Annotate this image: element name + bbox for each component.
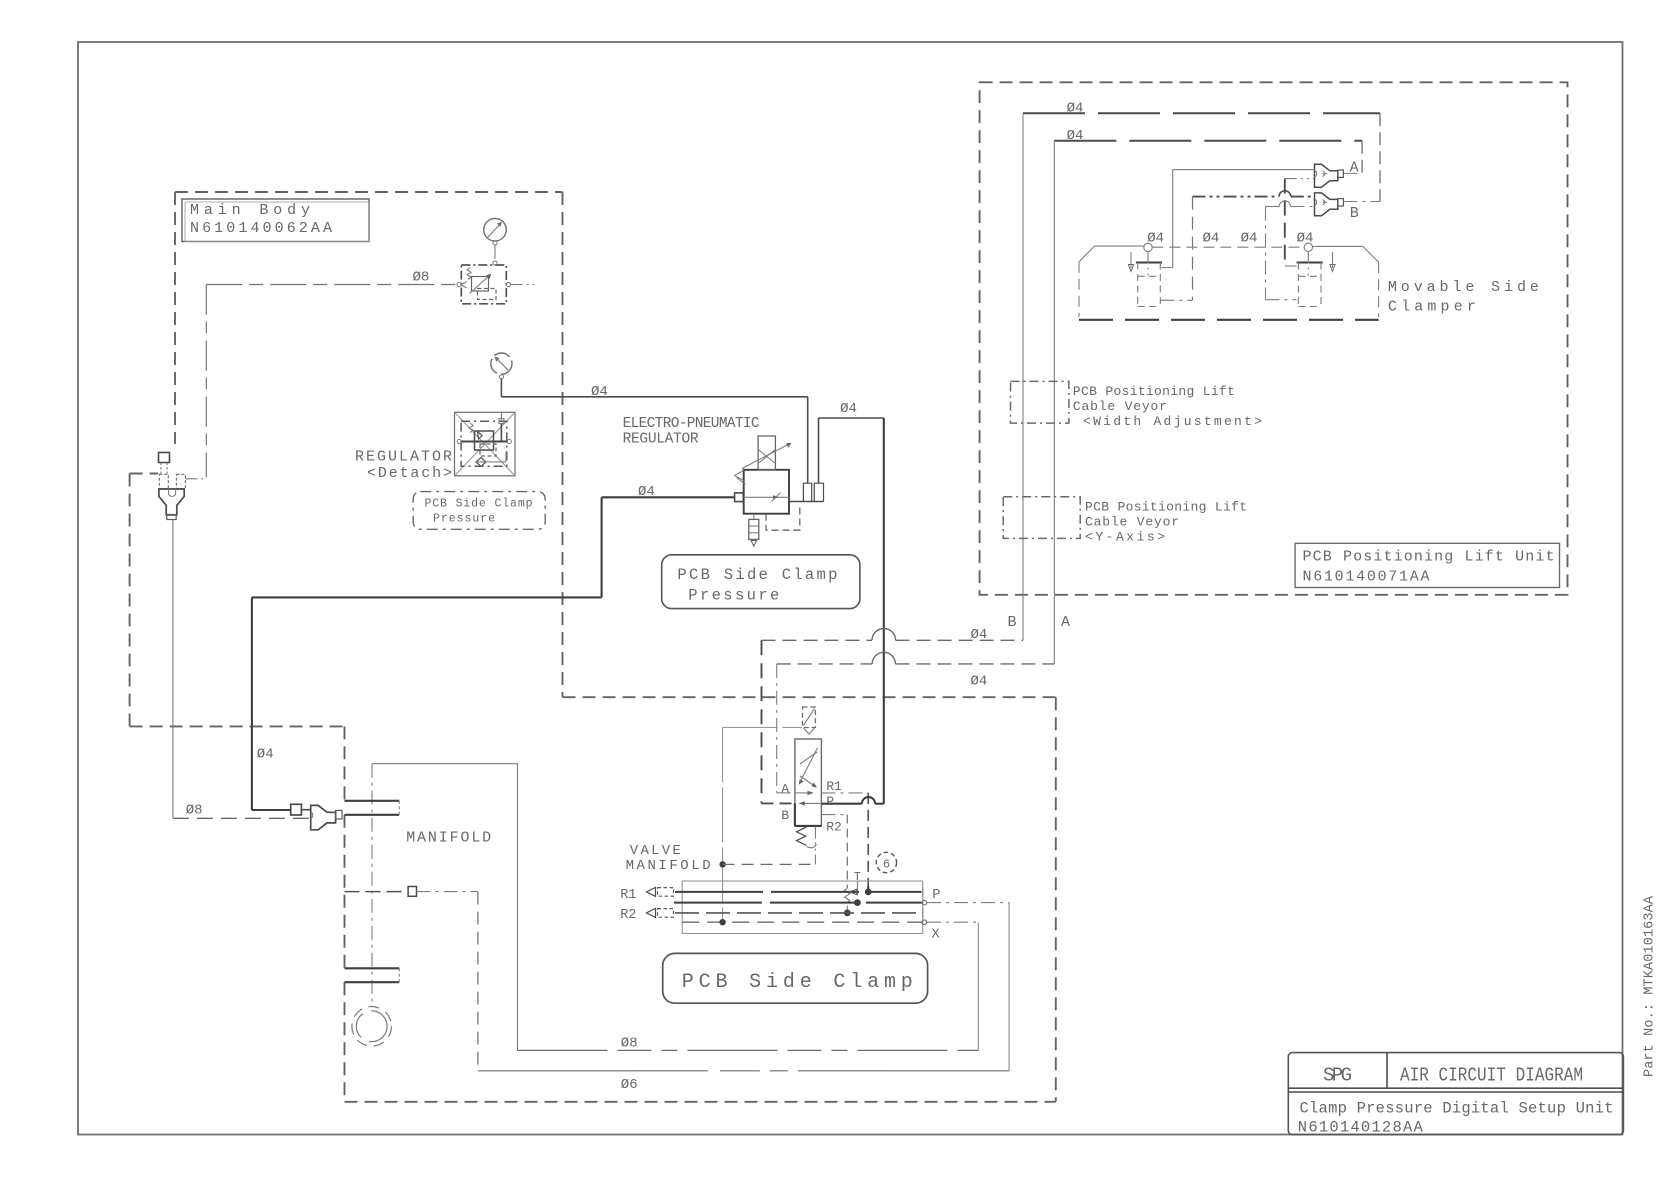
wire gauge G2 drop bbox=[500, 379, 502, 397]
svg-text:Ø4: Ø4 bbox=[840, 401, 857, 417]
svg-text:R1: R1 bbox=[620, 888, 636, 903]
valve V1 exhaust stub to leader bbox=[814, 827, 816, 865]
regulator R-A (main body air regulator) bbox=[457, 265, 510, 304]
Main Body enclosure lower section top edge bbox=[563, 696, 1056, 698]
Main Body enclosure lower section bottom edge bbox=[345, 1101, 1056, 1103]
svg-text:Ø4: Ø4 bbox=[638, 484, 655, 500]
manifold M1 bottom port sleeve bbox=[345, 968, 400, 982]
Movable Side Clamper chamfers bbox=[1079, 246, 1379, 262]
svg-text:PCB Positioning Lift Unit: PCB Positioning Lift Unit bbox=[1303, 549, 1555, 566]
fitting R2 port bbox=[647, 908, 656, 917]
wire manifold line 2 (P supply) bbox=[674, 902, 922, 904]
wire X port continuation dash-dot bbox=[927, 921, 978, 923]
svg-text:Ø8: Ø8 bbox=[186, 803, 203, 819]
wire P-port riser x=1009 bbox=[1008, 903, 1010, 1071]
wire vertical net B x=1023 bbox=[1022, 113, 1024, 640]
label box PCB Side Clamp Pressure (dashed rounded, regulator detach) bbox=[413, 492, 545, 530]
wire fitting FB lower input with hop bbox=[1266, 206, 1280, 208]
down arrow right bbox=[1332, 252, 1334, 268]
cylinder CYL2 (right) port circle bbox=[1304, 243, 1312, 251]
Main Body enclosure dashed box top edge bbox=[175, 191, 563, 193]
svg-text:Ø4: Ø4 bbox=[971, 627, 988, 643]
svg-text:P: P bbox=[826, 794, 834, 809]
Main Body label box bbox=[182, 199, 369, 242]
cylinder CYL1 body bbox=[1136, 261, 1162, 263]
svg-text:Clamper: Clamper bbox=[1388, 299, 1476, 316]
fitting F1 plug stem bbox=[161, 463, 167, 474]
wire R2 from valve to manifold drop with filter bbox=[821, 814, 847, 816]
wire vertical net A x=1054.3 bbox=[1053, 141, 1055, 664]
wire gauge G1 to regulator R-A (dash-dot drop) bbox=[494, 245, 496, 261]
svg-text:Cable Veyor: Cable Veyor bbox=[1073, 399, 1167, 414]
svg-text:B: B bbox=[1350, 205, 1359, 222]
svg-text:PCB Side Clamp: PCB Side Clamp bbox=[425, 498, 533, 511]
wire drop to right cylinder bottom port x=1265.5 bbox=[1265, 207, 1267, 300]
svg-text:PCB Positioning Lift: PCB Positioning Lift bbox=[1085, 500, 1247, 515]
svg-text:B: B bbox=[1008, 614, 1017, 631]
fitting R1 port bbox=[647, 887, 656, 896]
svg-text:6: 6 bbox=[883, 857, 890, 871]
label box PCB Side Clamp Pressure (solid rounded) bbox=[662, 555, 860, 609]
regulator R-B (detachable) outer square with cross bbox=[455, 412, 516, 476]
title block outer box bbox=[1288, 1053, 1623, 1135]
svg-text:Ø4: Ø4 bbox=[257, 747, 274, 763]
wire vertical drop x=478 to P6 line bbox=[477, 892, 479, 1071]
svg-text:SPG: SPG bbox=[1323, 1065, 1352, 1087]
fitting F2 Y-body pointing right bbox=[311, 805, 336, 829]
svg-text:AIR CIRCUIT DIAGRAM: AIR CIRCUIT DIAGRAM bbox=[1400, 1065, 1583, 1087]
wire output drop no.1 x=807.7 bbox=[807, 397, 809, 483]
wire P thick line from valve to riser with hop bbox=[821, 803, 862, 805]
manifold M1 body outline bbox=[372, 764, 518, 1051]
leader VALVE MANIFOLD top run to valve bbox=[723, 726, 803, 728]
wire main riser x=883.8 down to valve P line bbox=[883, 418, 885, 804]
pressure gauge G2 bbox=[491, 353, 512, 379]
Main Body enclosure dashed box right edge bbox=[562, 192, 564, 697]
valve V1 A port arrow bbox=[795, 792, 811, 794]
svg-text:P: P bbox=[932, 888, 940, 903]
wire manifold line R2 bbox=[675, 912, 922, 914]
P port end tick and label bbox=[922, 887, 924, 896]
svg-text:REGULATOR: REGULATOR bbox=[623, 432, 699, 448]
cable veyor block CV2 (Y-axis) bbox=[1003, 497, 1080, 539]
svg-text:R2: R2 bbox=[620, 908, 636, 923]
wire main supply horizontal into fitting F2 bbox=[252, 809, 291, 811]
wire fitting FA lower input (dash-dot-dot) bbox=[1285, 178, 1315, 180]
fitting F2 outlet stub bbox=[336, 810, 342, 819]
wire P port continuation dash-dot bbox=[927, 902, 1009, 904]
fitting F2 inline connector square bbox=[291, 804, 302, 815]
svg-text:X: X bbox=[932, 927, 940, 942]
svg-text:Ø4: Ø4 bbox=[1067, 101, 1084, 117]
svg-text:Ø4: Ø4 bbox=[1241, 231, 1258, 247]
svg-text:Ø4: Ø4 bbox=[1147, 231, 1164, 247]
svg-text:Ø6: Ø6 bbox=[621, 1077, 638, 1093]
wire dash-dot-dot into fitting F1 right arm bbox=[186, 478, 207, 480]
wire P8 bottom run bbox=[518, 1049, 979, 1051]
wire riser to left cylinder top port x=1172.7 bbox=[1172, 170, 1174, 268]
svg-text:MANIFOLD: MANIFOLD bbox=[406, 830, 491, 847]
svg-text:Ø4: Ø4 bbox=[971, 674, 988, 690]
wire vertical drop x=206 to Y fitting F1 bbox=[205, 285, 207, 478]
Main Body supply stub dashed edge bottom bbox=[130, 725, 345, 727]
svg-text:PCB Positioning Lift: PCB Positioning Lift bbox=[1073, 384, 1235, 399]
wire P4 line B (top) bbox=[1023, 112, 1380, 114]
wire P4 gauge line to output drop bbox=[501, 396, 807, 398]
valve V1 solenoid actuator bbox=[803, 707, 816, 728]
wire line A right drop to fitting FA bbox=[1361, 141, 1363, 174]
wire manifold M1 to fitting F3 (dashed) bbox=[345, 891, 407, 893]
silencer S1 on manifold M1 bbox=[352, 1007, 392, 1047]
leader VALVE MANIFOLD vertical bbox=[722, 727, 724, 921]
wire regulator R-A outlet stub (dash-dot-dot) bbox=[511, 284, 537, 286]
valve V1 actuator chevron bbox=[804, 728, 815, 734]
wire output line no.2 (to clamp valve) bbox=[819, 418, 884, 483]
fitting F1 port sleeves bbox=[159, 474, 168, 488]
leader VALVE MANIFOLD dot and dashed run bbox=[719, 861, 725, 867]
svg-text:A: A bbox=[1350, 160, 1359, 177]
wire net A horizontal dashed with hop bbox=[777, 663, 873, 665]
svg-text:Ø8: Ø8 bbox=[413, 270, 430, 286]
Movable Side Clamper right edge bbox=[1378, 262, 1380, 317]
svg-text:Part No.: MTKA010163AA: Part No.: MTKA010163AA bbox=[1643, 895, 1658, 1077]
svg-text:ELECTRO-PNEUMATIC: ELECTRO-PNEUMATIC bbox=[623, 416, 760, 432]
valve V1 lower position arrow bbox=[802, 802, 822, 804]
svg-text:Main Body: Main Body bbox=[190, 202, 310, 219]
wire drop to left cylinder bottom port x=1192.5 bbox=[1192, 197, 1194, 301]
manifold M1 axis center line bbox=[371, 764, 373, 1006]
Movable Side Clamper outline top edge bbox=[1094, 245, 1143, 247]
wire fitting F3 to drop x=478 (dash-dot) bbox=[417, 891, 478, 893]
svg-text:Ø4: Ø4 bbox=[1203, 231, 1220, 247]
svg-text:Ø4: Ø4 bbox=[591, 384, 608, 400]
wire manifold line X bbox=[682, 921, 921, 923]
wire fitting FB upper input with hop bbox=[1193, 196, 1280, 198]
wire net B horizontal dashed with hop bbox=[762, 639, 873, 641]
Main Body supply stub dashed edge vertical bbox=[129, 474, 131, 727]
note circle 6 bbox=[876, 852, 896, 872]
svg-text:REGULATOR: REGULATOR bbox=[355, 449, 452, 466]
manifold M1 inlet port sleeve bbox=[345, 801, 400, 815]
fitting F3 outlet connector square on manifold M1 bbox=[408, 887, 416, 897]
wire fitting FA upper input bbox=[1173, 169, 1315, 171]
svg-text:Ø8: Ø8 bbox=[621, 1036, 638, 1052]
title block divider horizontal double line bbox=[1288, 1087, 1623, 1089]
svg-text:Cable Veyor: Cable Veyor bbox=[1085, 515, 1179, 530]
wire P4 line A (second) bbox=[1054, 140, 1362, 142]
svg-text:A: A bbox=[1061, 614, 1070, 631]
Main Body enclosure dashed box left edge bbox=[174, 192, 176, 444]
pressure gauge G1 bbox=[484, 218, 507, 245]
wire regulator U1 input run bbox=[252, 497, 735, 597]
wire P8 supply line (center-line style) from regulator R-A to left drop bbox=[206, 284, 457, 286]
valve V1 return springs bbox=[797, 827, 807, 845]
Movable Side Clamper left edge bbox=[1078, 262, 1080, 317]
wire riser to right cylinder top port x=1284.8 bbox=[1284, 179, 1286, 266]
wire from fitting F1 down to P8 line bbox=[172, 520, 174, 819]
wire manifold line R1-P bbox=[675, 891, 922, 893]
label box PCB Side Clamp bbox=[663, 953, 928, 1003]
svg-text:<Detach>: <Detach> bbox=[367, 465, 452, 482]
PCB Positioning Lift Unit label box bbox=[1295, 543, 1559, 587]
cylinder CYL2 body bbox=[1297, 261, 1323, 263]
svg-text:R1: R1 bbox=[826, 779, 842, 794]
wire P6 bottom run bbox=[478, 1070, 1009, 1072]
speed controller fitting FA bbox=[1315, 164, 1344, 187]
fitting F1 bottom stub bbox=[167, 515, 176, 520]
svg-text:A: A bbox=[781, 781, 789, 796]
Movable Side Clamper bottom edge bbox=[1079, 319, 1379, 321]
fitting F1 Y-body bbox=[159, 489, 184, 515]
svg-text:N610140128AA: N610140128AA bbox=[1298, 1119, 1424, 1137]
electro-pneumatic regulator U1 bbox=[735, 436, 824, 546]
wire net B drop to valve port B bbox=[761, 640, 763, 803]
valve manifold M2 outline bbox=[682, 881, 923, 933]
speed controller fitting FB bbox=[1315, 193, 1344, 216]
valve V1 body bbox=[795, 739, 822, 826]
svg-text:Ø4: Ø4 bbox=[1067, 128, 1084, 144]
svg-text:Clamp Pressure Digital Setup U: Clamp Pressure Digital Setup Unit bbox=[1300, 1100, 1614, 1118]
wire line B right drop to fitting FB bbox=[1379, 113, 1381, 201]
wire P8 dashed line to fitting F2 bbox=[173, 817, 311, 819]
wire R1 from valve to manifold drop bbox=[821, 792, 868, 794]
PCB Positioning Lift Unit dashed enclosure bbox=[980, 82, 1568, 595]
Main Body enclosure lower section right edge bbox=[1055, 697, 1057, 1102]
Main Body supply stub dashed edge horizontal bbox=[130, 473, 158, 475]
wire net A drop to valve port A bbox=[776, 664, 778, 793]
small arrow on R1 line bbox=[849, 889, 857, 894]
svg-text:Ø4: Ø4 bbox=[1297, 231, 1314, 247]
svg-text:R2: R2 bbox=[826, 819, 842, 834]
wire main supply vertical x=252 bbox=[251, 597, 253, 810]
svg-text:VALVE: VALVE bbox=[630, 843, 681, 859]
svg-text:N610140071AA: N610140071AA bbox=[1303, 569, 1430, 586]
valve V1 upper position flow arrows bbox=[800, 748, 818, 783]
svg-text:Pressure: Pressure bbox=[433, 513, 495, 526]
fitting F1 plug cap bbox=[159, 453, 170, 463]
wire X-port riser x=978 bbox=[977, 922, 979, 1050]
title block divider vertical bbox=[1386, 1053, 1388, 1089]
down arrow left bbox=[1130, 252, 1132, 268]
cable veyor block CV1 (width adjustment) bbox=[1011, 381, 1069, 423]
cylinder CYL1 (left) port circle bbox=[1144, 243, 1152, 251]
svg-text:B: B bbox=[781, 808, 789, 823]
Main Body enclosure lower section left edge bbox=[344, 726, 346, 1101]
